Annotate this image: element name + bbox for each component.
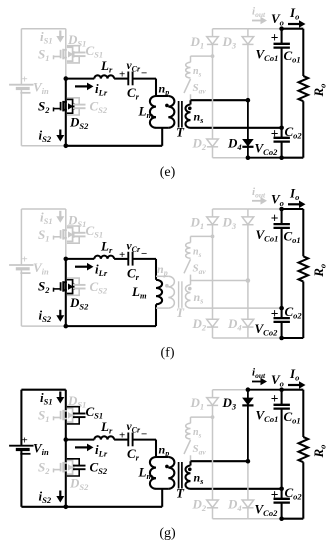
diode D1 (e) — [207, 37, 219, 45]
svg-text:T: T — [176, 305, 185, 320]
svg-text:ns: ns — [194, 471, 204, 487]
capacitor C_S2 (e) — [67, 98, 108, 115]
diode D4 (g) — [242, 500, 254, 508]
svg-text:iS1: iS1 — [40, 209, 53, 226]
svg-text:Lr: Lr — [100, 419, 113, 436]
capacitor C_o1 (f) — [274, 224, 290, 228]
svg-text:np: np — [157, 262, 168, 278]
polarity dot n_p (e) — [165, 104, 169, 108]
svg-text:(g): (g) — [159, 526, 176, 541]
svg-text:Co1: Co1 — [284, 48, 301, 65]
current label i_S1 (g) — [40, 390, 64, 407]
diode D3 (f) — [242, 217, 254, 225]
svg-text:iout: iout — [252, 367, 266, 381]
wire: n_s top to rectifier (g) — [191, 460, 248, 462]
wire: rectifier right leg lower (f) — [247, 281, 249, 339]
inductor L_r (f) — [94, 256, 114, 259]
svg-text:D2: D2 — [192, 497, 207, 514]
svg-text:np: np — [159, 443, 170, 459]
svg-text:(f): (f) — [161, 345, 175, 360]
wire: rectifier right leg upper (e) — [247, 29, 249, 101]
svg-text:Co1: Co1 — [284, 409, 301, 426]
svg-text:Lr: Lr — [100, 238, 113, 255]
diode D3 (g) — [242, 398, 254, 406]
winding n_p (gray) (f) — [156, 276, 174, 308]
resistor R_o (e) — [299, 76, 309, 101]
capacitor C_o2 (f) — [274, 318, 290, 322]
svg-text:−: − — [141, 248, 147, 260]
svg-text:Vin: Vin — [33, 441, 49, 458]
current label i_out (g) — [252, 367, 267, 386]
node: output bottom (e) — [279, 155, 284, 160]
svg-text:D3: D3 — [222, 395, 237, 412]
wire: rectifier right leg lower (e) — [247, 100, 249, 158]
mosfet S2 (f) — [54, 280, 74, 294]
svg-text:−: − — [141, 68, 147, 80]
svg-text:D1: D1 — [190, 214, 205, 231]
label R_o (e) — [311, 84, 328, 98]
diode D2 (g) — [207, 500, 219, 508]
svg-text:ns: ns — [193, 427, 202, 440]
wire: rectifier top rail (f) — [213, 208, 282, 210]
svg-text:Vin: Vin — [33, 260, 49, 277]
node: bridge mid (f) — [64, 257, 69, 262]
winding n_s (g) — [185, 461, 190, 489]
mosfet S1 (f) — [54, 228, 74, 242]
wire: n_s top to rectifier (f) — [191, 280, 248, 282]
node: capacitor midpoint (g) — [279, 487, 284, 492]
current label i_S1 (f) — [40, 209, 64, 226]
wire: half-bridge leg rail (g) — [65, 390, 67, 507]
svg-text:+: + — [22, 434, 28, 446]
svg-text:+: + — [119, 249, 125, 261]
svg-text:iLr: iLr — [95, 81, 108, 98]
current label i_out (f) — [252, 186, 267, 205]
auxiliary winding branch with switch S_av (f) — [184, 235, 214, 281]
capacitor C_S2 (g) — [67, 459, 108, 476]
wire: tank bottom (e) — [66, 145, 162, 147]
wire: primary top bar (e) — [156, 95, 168, 97]
svg-text:CS2: CS2 — [90, 460, 108, 477]
svg-text:vCr: vCr — [127, 60, 141, 74]
svg-text:CS2: CS2 — [90, 99, 108, 116]
svg-text:iLr: iLr — [95, 261, 108, 278]
svg-text:ns: ns — [193, 66, 202, 79]
svg-text:D1: D1 — [190, 395, 205, 412]
current label i_S2 (g) — [39, 488, 65, 505]
inductor L_r (e) — [94, 75, 114, 78]
svg-text:iout: iout — [252, 186, 266, 200]
svg-text:+: + — [271, 306, 279, 321]
current label i_S2 (f) — [39, 308, 65, 325]
svg-text:Ro: Ro — [311, 445, 328, 459]
node: bridge bottom (f) — [64, 324, 69, 329]
svg-text:Cr: Cr — [127, 446, 140, 463]
resistor R_o (f) — [299, 256, 309, 281]
wire: tank top (e) — [66, 78, 156, 80]
svg-text:S2: S2 — [38, 279, 50, 296]
node: rectifier mid (e) — [246, 98, 251, 103]
svg-text:Vo: Vo — [271, 11, 284, 28]
svg-text:+: + — [119, 69, 125, 81]
svg-text:vCr: vCr — [127, 240, 141, 254]
inductor L_m (g) — [150, 457, 156, 489]
svg-text:Io: Io — [289, 366, 299, 383]
wire: n_s bottom to capacitor midpoint (g) — [191, 488, 282, 490]
mosfet S2 (g) — [54, 460, 74, 474]
svg-text:Vo: Vo — [271, 191, 284, 208]
wire: tank top (g) — [66, 439, 156, 441]
capacitor C_S2 (f) — [67, 278, 108, 295]
svg-text:VCo1: VCo1 — [256, 408, 279, 425]
svg-text:DS2: DS2 — [69, 295, 89, 312]
svg-text:+: + — [119, 430, 125, 442]
wire: n_s top to rectifier (e) — [191, 99, 248, 101]
battery V_in (e) — [9, 73, 33, 93]
svg-text:ns: ns — [194, 290, 204, 306]
svg-text:CS1: CS1 — [86, 223, 104, 240]
svg-text:D1: D1 — [190, 34, 205, 51]
wire: input loop (V_in to half-bridge rails) (e) — [21, 29, 65, 146]
label v_Cr with polarity (f) — [119, 240, 147, 260]
transformer core T (f) — [179, 281, 182, 308]
resistor R_o (g) — [299, 437, 309, 462]
label I_o with arrow (g) — [288, 366, 306, 389]
wire: C_r down right side of loop (f) — [155, 259, 157, 280]
svg-text:iS2: iS2 — [39, 127, 52, 144]
svg-text:Ro: Ro — [311, 84, 328, 98]
wire: n_s bottom to capacitor midpoint (f) — [191, 307, 282, 309]
svg-text:iLr: iLr — [95, 442, 108, 459]
svg-text:Vo: Vo — [271, 372, 284, 389]
wire: output capacitor string (e) — [281, 29, 283, 158]
svg-text:iS1: iS1 — [40, 390, 53, 407]
svg-text:VCo1: VCo1 — [256, 227, 279, 244]
node: capacitor midpoint (f) — [279, 306, 284, 311]
svg-text:Cr: Cr — [127, 265, 140, 282]
wire: rectifier top rail (e) — [213, 28, 282, 30]
svg-text:Sav: Sav — [193, 262, 207, 276]
svg-text:np: np — [159, 82, 170, 98]
svg-text:DS2: DS2 — [69, 476, 89, 493]
mosfet S1 (e) — [54, 47, 74, 61]
capacitor C_r (f) — [128, 252, 132, 266]
svg-text:Co2: Co2 — [285, 485, 303, 502]
svg-text:−: − — [141, 429, 147, 441]
node: bridge bottom (g) — [64, 505, 69, 510]
capacitor C_S1 (g) — [67, 404, 103, 424]
diode D2 (f) — [207, 319, 219, 327]
svg-text:S1: S1 — [38, 47, 49, 64]
label v_Cr with polarity (e) — [119, 60, 147, 81]
svg-text:Sav: Sav — [193, 82, 207, 96]
capacitor C_r (e) — [128, 72, 132, 86]
svg-text:+: + — [271, 210, 279, 225]
svg-text:Co1: Co1 — [284, 228, 301, 245]
svg-text:Lm: Lm — [131, 284, 147, 301]
current label i_S2 (e) — [39, 127, 65, 144]
wire: load branch (e) — [282, 29, 304, 158]
inductor L_r (g) — [94, 436, 114, 439]
svg-text:S2: S2 — [38, 98, 50, 115]
node: rectifier mid (f) — [246, 278, 251, 283]
svg-text:CS2: CS2 — [90, 279, 108, 296]
diode D1 (g) — [207, 398, 219, 406]
svg-text:Io: Io — [289, 5, 299, 22]
svg-text:D3: D3 — [222, 34, 237, 51]
svg-text:Cr: Cr — [127, 85, 140, 102]
auxiliary winding branch with switch S_av (e) — [184, 54, 214, 100]
svg-text:S1: S1 — [38, 408, 49, 425]
svg-text:iout: iout — [252, 6, 266, 20]
inductor L_m (e) — [150, 96, 156, 128]
inductor L_m (f) — [156, 280, 162, 305]
svg-text:iS2: iS2 — [39, 488, 52, 505]
svg-text:D2: D2 — [192, 316, 207, 333]
wire: load branch (f) — [282, 209, 304, 338]
svg-text:iS1: iS1 — [40, 29, 53, 46]
svg-text:VCo2: VCo2 — [255, 321, 279, 338]
svg-text:+: + — [271, 391, 279, 406]
winding n_p (e) — [168, 96, 174, 128]
svg-text:Sav: Sav — [193, 443, 207, 457]
wire: load branch (g) — [282, 390, 304, 519]
wire: rectifier bottom rail (e) — [213, 157, 304, 159]
wire: rectifier top rail (g) — [213, 389, 282, 391]
node: V_o (g) — [279, 387, 284, 392]
current label i_Lr (f) — [75, 261, 108, 278]
wire: C_r to transformer (e) — [155, 79, 157, 96]
svg-text:D3: D3 — [222, 214, 237, 231]
polarity dot n_s (g) — [188, 468, 192, 472]
svg-text:D4: D4 — [227, 136, 242, 153]
wire: n_s bottom to capacitor midpoint (e) — [191, 127, 282, 129]
label I_o with arrow (e) — [288, 5, 306, 28]
battery V_in (f) — [9, 254, 33, 274]
wire: tank bottom (g) — [66, 506, 162, 508]
svg-text:D4: D4 — [227, 316, 242, 333]
current label i_out (e) — [252, 6, 267, 25]
mosfet S2 (e) — [54, 99, 74, 113]
polarity dot n_p (g) — [165, 465, 169, 469]
diode D4 (f) — [242, 319, 254, 327]
svg-text:ns: ns — [193, 246, 202, 258]
wire: half-bridge leg rail (f) — [65, 209, 67, 326]
wire: input loop (V_in to half-bridge rails) (f) — [21, 209, 65, 326]
wire: primary return (g) — [161, 489, 163, 507]
wire: rectifier left leg (e) — [212, 29, 214, 158]
svg-text:Io: Io — [289, 185, 299, 202]
svg-text:+: + — [22, 254, 28, 266]
wire: half-bridge leg rail (e) — [65, 29, 67, 146]
node: bridge mid (e) — [64, 76, 69, 81]
diode D4 (e) — [242, 139, 254, 147]
node: capacitor midpoint (e) — [279, 126, 284, 131]
wire: C_r to transformer (g) — [155, 440, 157, 457]
wire: primary bottom bar (e) — [156, 127, 168, 129]
wire: primary top bar (g) — [156, 456, 168, 458]
svg-text:VCo2: VCo2 — [255, 502, 279, 519]
polarity dot n_s (f) — [188, 287, 192, 291]
label v_Cr with polarity (g) — [119, 421, 147, 442]
label R_o (f) — [311, 264, 328, 278]
svg-text:CS1: CS1 — [86, 404, 104, 421]
wire: rectifier right leg upper (g) — [247, 390, 249, 462]
wire: output capacitor string (g) — [281, 390, 283, 519]
wire: primary bottom bar (g) — [156, 488, 168, 490]
node: D3 top (g) — [246, 387, 251, 392]
node: output bottom (g) — [279, 516, 284, 521]
node: bridge bottom (e) — [64, 144, 69, 149]
winding n_s (f) — [185, 281, 190, 309]
wire: primary return (e) — [161, 128, 163, 146]
svg-text:VCo2: VCo2 — [255, 141, 279, 158]
current label i_Lr (g) — [75, 442, 108, 459]
svg-text:Ro: Ro — [311, 264, 328, 278]
svg-text:T: T — [176, 486, 185, 501]
battery V_in (g) — [9, 434, 33, 454]
capacitor C_o2 (e) — [274, 138, 290, 142]
wire: tank bottom (f) — [66, 325, 156, 327]
capacitor C_r (g) — [128, 433, 132, 447]
svg-text:DS2: DS2 — [69, 115, 89, 132]
label R_o (g) — [311, 445, 328, 459]
svg-text:Lr: Lr — [100, 58, 113, 75]
svg-text:S1: S1 — [38, 227, 49, 244]
svg-text:VCo1: VCo1 — [256, 47, 279, 64]
svg-text:CS1: CS1 — [86, 43, 104, 60]
wire: rectifier right leg lower (g) — [247, 461, 249, 519]
node: V_o (f) — [279, 207, 284, 212]
diode D2 (e) — [207, 139, 219, 147]
current label i_Lr (e) — [75, 81, 108, 98]
svg-text:+: + — [22, 73, 28, 85]
polarity dot n_s (e) — [188, 107, 192, 111]
wire: loop right lower (f) — [155, 304, 157, 326]
svg-text:Co2: Co2 — [285, 304, 303, 321]
transformer core T (e) — [179, 101, 182, 128]
node: rectifier mid (g) — [246, 459, 251, 464]
svg-text:T: T — [176, 125, 185, 140]
wire: output capacitor string (f) — [281, 209, 283, 338]
capacitor C_o2 (g) — [274, 499, 290, 503]
svg-text:Co2: Co2 — [285, 124, 303, 141]
svg-text:D2: D2 — [192, 136, 207, 153]
svg-text:vCr: vCr — [127, 421, 141, 435]
svg-text:+: + — [271, 126, 279, 141]
svg-text:+: + — [271, 487, 279, 502]
wire: tank top (f) — [66, 258, 156, 260]
transformer core T (g) — [179, 462, 182, 489]
current label i_S1 (e) — [40, 29, 64, 46]
wire: rectifier left leg (g) — [212, 390, 214, 519]
wire: rectifier bottom rail (f) — [213, 337, 304, 339]
label I_o with arrow (f) — [288, 185, 306, 208]
svg-text:iS2: iS2 — [39, 308, 52, 325]
svg-text:S2: S2 — [38, 459, 50, 476]
auxiliary winding branch with switch S_av (g) — [184, 415, 214, 461]
svg-text:(e): (e) — [160, 165, 176, 180]
svg-text:ns: ns — [194, 110, 204, 126]
capacitor C_o1 (g) — [274, 405, 290, 409]
node: V_o (e) — [279, 26, 284, 31]
node: output bottom (f) — [279, 336, 284, 341]
wire: rectifier left leg (f) — [212, 209, 214, 338]
capacitor C_S1 (f) — [67, 223, 103, 243]
svg-text:D4: D4 — [227, 497, 242, 514]
wire: rectifier bottom rail (g) — [213, 518, 304, 520]
wire: input loop (V_in to half-bridge rails) (g) — [21, 390, 65, 507]
node: D4 bottom (e) — [246, 155, 251, 160]
winding n_p (g) — [168, 457, 174, 489]
diode D1 (f) — [207, 217, 219, 225]
mosfet S1 (g) — [54, 408, 74, 422]
svg-text:Vin: Vin — [33, 80, 49, 97]
diode D3 (e) — [242, 37, 254, 45]
node: bridge mid (g) — [64, 437, 69, 442]
svg-text:+: + — [271, 30, 279, 45]
capacitor C_S1 (e) — [67, 43, 103, 63]
capacitor C_o1 (e) — [274, 44, 290, 48]
wire: rectifier right leg upper (f) — [247, 209, 249, 281]
winding n_s (e) — [185, 100, 190, 128]
